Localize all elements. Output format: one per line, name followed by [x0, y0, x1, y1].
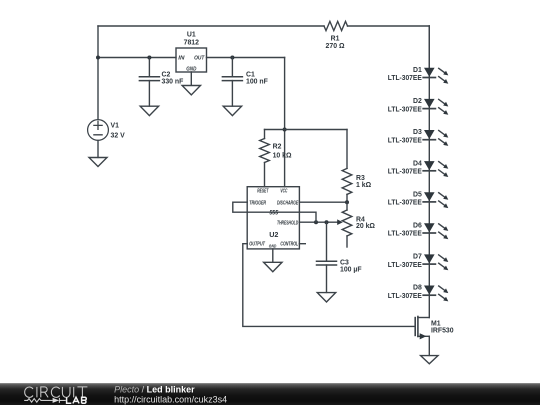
svg-text:D8: D8 [413, 285, 422, 292]
svg-text:U1: U1 [187, 32, 196, 39]
regulator U1 7812 [176, 32, 207, 73]
wire input rail [98, 57, 176, 59]
svg-text:D7: D7 [413, 254, 422, 261]
node VCC junction [283, 128, 287, 132]
svg-text:32 V: 32 V [111, 132, 126, 139]
ground below U1 [182, 86, 200, 95]
svg-text:LTL-307EE: LTL-307EE [388, 169, 422, 176]
ground below U2 [264, 262, 282, 271]
wire LED chain vertical [428, 26, 430, 318]
svg-text:D6: D6 [413, 223, 422, 230]
svg-text:555: 555 [269, 210, 278, 217]
svg-text:LTL-307EE: LTL-307EE [388, 106, 422, 113]
wire V1 to ground [97, 140, 99, 157]
svg-text:R1: R1 [331, 35, 340, 42]
svg-text:D3: D3 [413, 129, 422, 136]
node C1 junction [230, 56, 234, 60]
node C3 junction [325, 220, 329, 224]
wire OUTPUT to M1 gate [243, 244, 415, 327]
wire C3 top lead [326, 222, 328, 261]
svg-text:V1: V1 [111, 122, 120, 129]
wire top rail left of R1 [98, 25, 324, 27]
diode D7 LED [388, 254, 449, 271]
ground below C1 [223, 106, 241, 115]
diode D3 LED [388, 129, 449, 146]
svg-text:LTL-307EE: LTL-307EE [388, 75, 422, 82]
svg-text:OUT: OUT [194, 56, 205, 62]
footer bar [0, 383, 540, 405]
svg-text:THRESHOLD: THRESHOLD [277, 220, 298, 226]
svg-text:RESET: RESET [257, 189, 269, 195]
svg-text:C1: C1 [246, 71, 255, 78]
resistor R2 [260, 130, 292, 187]
resistor R3 [342, 130, 371, 203]
svg-text:270 Ω: 270 Ω [326, 43, 345, 50]
svg-text:D2: D2 [413, 98, 422, 105]
wire C1 bottom lead [231, 81, 233, 106]
svg-text:D4: D4 [413, 160, 422, 167]
ground below M1 [421, 356, 438, 364]
IC U2 555 timer [247, 187, 299, 249]
wire top-left vertical (V+ to top rail) [97, 26, 99, 119]
diode D1 LED [388, 67, 449, 84]
wire C3 bottom lead [326, 265, 328, 292]
svg-text:R2: R2 [273, 144, 282, 151]
transistor M1 IRF530 [415, 317, 454, 340]
diode D5 LED [388, 191, 449, 208]
capacitor C1 [222, 71, 267, 85]
capacitor C3 [317, 260, 362, 274]
voltage source V1 [88, 120, 125, 141]
node trigger/threshold junction [314, 220, 318, 224]
wire right rail down to D1 [428, 26, 430, 68]
wire output rail U1 to corner [207, 57, 285, 59]
svg-text:20 kΩ: 20 kΩ [356, 223, 375, 230]
svg-text:LTL-307EE: LTL-307EE [388, 262, 422, 269]
CircuitLab logo text CIRCUIT (drawn) [25, 387, 88, 398]
CircuitLab logo text LAB (drawn) [67, 397, 87, 403]
svg-text:LTL-307EE: LTL-307EE [388, 293, 422, 300]
diode D6 LED [388, 223, 449, 240]
ground below C2 [140, 106, 158, 115]
svg-text:D1: D1 [413, 67, 422, 74]
svg-text:OUTPUT: OUTPUT [249, 242, 265, 248]
ground below C3 [317, 293, 335, 302]
resistor R1 [324, 21, 348, 50]
potentiometer R4 [342, 202, 375, 247]
svg-text:http://circuitlab.com/cukz3s4: http://circuitlab.com/cukz3s4 [114, 394, 227, 404]
node R3/R4/discharge junction [345, 200, 349, 204]
CircuitLab logo resistor-diode glyph [24, 398, 66, 403]
svg-text:IRF530: IRF530 [431, 328, 454, 335]
diode D2 LED [388, 98, 449, 115]
pin CONTROL stub [299, 243, 305, 245]
svg-text:GND: GND [269, 244, 277, 249]
svg-text:TRIGGER: TRIGGER [249, 200, 266, 206]
wire DISCHARGE to R3/R4 node [299, 201, 347, 203]
svg-text:DISCHARGE: DISCHARGE [277, 200, 298, 206]
svg-text:LTL-307EE: LTL-307EE [388, 231, 422, 238]
svg-text:330 nF: 330 nF [162, 78, 184, 85]
wire TRIGGER feedback loop [233, 202, 316, 222]
node input-rail junction at V1 [96, 56, 100, 60]
svg-text:CONTROL: CONTROL [280, 242, 298, 248]
svg-text:D5: D5 [413, 191, 422, 198]
svg-text:U2: U2 [269, 230, 278, 239]
wire C2 bottom lead [148, 81, 150, 106]
svg-text:1 kΩ: 1 kΩ [356, 182, 372, 189]
wire M1 source to ground [428, 336, 430, 355]
svg-text:Plecto / Led blinker: Plecto / Led blinker [114, 384, 195, 394]
wire THRESHOLD to R4 wiper [299, 221, 338, 223]
wire C1 top lead [231, 58, 233, 77]
R4 wiper arrow [337, 219, 343, 225]
svg-text:LTL-307EE: LTL-307EE [388, 137, 422, 144]
svg-text:7812: 7812 [184, 39, 199, 46]
wire VCC vertical from output rail [284, 58, 286, 187]
wire top rail right of R1 [348, 25, 430, 27]
diode D4 LED [388, 160, 449, 177]
svg-text:LTL-307EE: LTL-307EE [388, 200, 422, 207]
ground below V1 [89, 158, 107, 167]
pin GND stub of U2 [272, 249, 274, 262]
svg-text:100 µF: 100 µF [340, 267, 362, 274]
svg-text:100 nF: 100 nF [246, 78, 268, 85]
svg-text:10 kΩ: 10 kΩ [273, 153, 292, 160]
svg-text:IN: IN [178, 56, 185, 62]
pin GND stub of U1 [190, 72, 192, 85]
node C2 junction [147, 56, 151, 60]
svg-text:VCC: VCC [280, 189, 287, 195]
wire R2/R3 top rail [265, 129, 348, 131]
wire C2 top lead [148, 58, 150, 77]
capacitor C2 [139, 71, 183, 85]
diode D8 LED [388, 285, 449, 302]
svg-text:C2: C2 [162, 71, 171, 78]
